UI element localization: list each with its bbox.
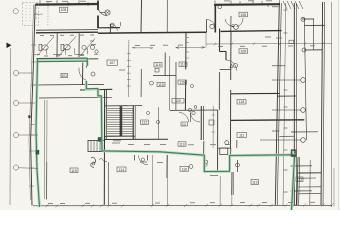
corridor wall x=230.8 <box>230 32 232 81</box>
ticks bottom dim <box>38 204 41 207</box>
left exterior wall (double) <box>31 4 36 205</box>
datum circle 0,0 <box>13 9 18 14</box>
green corner down x=87 <box>86 58 88 66</box>
lower center block: wall x=203.5/205.5 (y 110-139) <box>200 106 202 140</box>
stall front wall segments <box>34 54 40 56</box>
svg-text:115: 115 <box>158 83 164 87</box>
sinks circles bay 3 <box>82 45 86 49</box>
green route glow underlay <box>36 59 295 210</box>
recessed middle exterior wall y=32.8 <box>98 32 207 33</box>
green x=86 lower segment + jog to x=98 <box>86 81 102 151</box>
center rooms: wall x=185.5 <box>185 33 187 70</box>
circle fixture top right room <box>218 5 222 9</box>
right zone connecting walls <box>302 18 314 20</box>
top exterior wall (right block) <box>214 3 280 6</box>
svg-text:117: 117 <box>180 63 186 67</box>
bottom dimension line <box>33 204 332 207</box>
jog down at x=120 <box>109 24 111 33</box>
circles on x=304 service column <box>301 17 305 21</box>
dim line y=47.5 center <box>132 47 153 49</box>
left wall tick marks <box>31 44 36 46</box>
right block left wall x=215 <box>214 5 216 33</box>
diagonal hatch exterior stairs top-right <box>283 1 287 9</box>
wall y=24.8 from x 98-120 <box>98 27 120 29</box>
extension lines to bottom dim row <box>166 156 168 205</box>
svg-text:110: 110 <box>179 142 185 146</box>
svg-text:116: 116 <box>181 167 187 171</box>
svg-text:105: 105 <box>61 8 67 12</box>
WC fixtures (pan + cistern) <box>39 45 42 51</box>
entrance vestibule door arcs (x 98-120) <box>99 10 108 16</box>
wall y=96 x 231-296 <box>231 92 280 94</box>
right zone long verticals <box>275 3 279 206</box>
left column circles with leaders <box>13 70 18 75</box>
wall y=69.5 x 219-231 and x=219.5 down <box>220 68 231 70</box>
page edge line <box>9 48 12 205</box>
staircase treads <box>107 108 133 136</box>
svg-text:120: 120 <box>175 99 181 103</box>
lower vestibule walls (x 204-231, y 141-172) <box>203 141 205 156</box>
circle marker right of 117 <box>234 64 238 68</box>
svg-text:112: 112 <box>297 178 303 182</box>
stair central stringer <box>120 106 123 136</box>
door arcs in right block <box>225 19 235 27</box>
svg-text:107: 107 <box>109 61 115 65</box>
room 101 walls <box>34 83 104 86</box>
dim line y=44 right part <box>206 42 332 45</box>
fence/extension line x=141 in courtyard <box>140 0 143 33</box>
left door arc under green corner <box>79 68 87 81</box>
stair corridor wall x=104.5/106.5 <box>103 90 105 205</box>
svg-text:112: 112 <box>142 121 148 125</box>
stall door diagonals <box>38 37 55 56</box>
svg-text:118: 118 <box>239 100 245 104</box>
ticks on y=44 dim <box>214 43 216 46</box>
green corridor horizontal to right w/ detour <box>102 151 295 172</box>
svg-text:109: 109 <box>240 49 246 53</box>
svg-text:115: 115 <box>71 169 77 173</box>
bottom fixtures circles <box>189 165 193 169</box>
svg-text:101: 101 <box>61 74 67 78</box>
green door blobs <box>36 137 297 156</box>
legend rectangle top-left <box>23 3 39 26</box>
top exterior wall (left block) <box>36 3 99 6</box>
svg-text:116: 116 <box>155 63 161 67</box>
corridor under stairs: door arcs <box>139 156 149 165</box>
wall y=89.5 (x 80-109) <box>80 88 112 91</box>
vestibule right wall x=206.5 <box>206 20 208 33</box>
green top edge of toilet block <box>37 57 88 60</box>
green right vertical down <box>292 155 295 210</box>
vertical x=237.5 y 160-172 <box>237 160 239 172</box>
green long left vertical <box>36 59 40 207</box>
door arcs room 110 area <box>191 113 201 123</box>
svg-text:113: 113 <box>252 181 258 185</box>
svg-text:119: 119 <box>179 81 185 85</box>
green route main lines <box>36 58 295 210</box>
wall x=82.5 room 101 right <box>82 63 84 85</box>
svg-text:108: 108 <box>240 13 246 17</box>
top wall window ticks <box>47 2 49 7</box>
stair landing top edge <box>105 105 143 107</box>
wall y=110 x 170-206 <box>170 109 218 111</box>
svg-text:114: 114 <box>119 168 125 172</box>
svg-text:D2: D2 <box>182 122 186 126</box>
dashed overhead line x=48 <box>47 8 49 27</box>
north/entry triangle marker <box>7 43 12 49</box>
corner wall down at x=98 <box>97 1 99 11</box>
WC fixtures left of stair corridor <box>88 141 105 152</box>
interior wall y=31 right block <box>221 30 282 33</box>
stair block walls <box>132 106 134 139</box>
interior wall band of left block (y=30, y=32.5) <box>36 29 98 32</box>
wall x=128.5 (rooms 104/107) <box>128 40 130 97</box>
door arc at vestibule right <box>207 20 216 29</box>
svg-text:111: 111 <box>239 134 244 138</box>
toilet stall partitions (y 33-57) <box>56 33 58 57</box>
bottom-left rooms <box>46 162 48 200</box>
wall x=231.8 y 172-195 <box>231 172 233 195</box>
page scan edge line right <box>338 0 340 210</box>
